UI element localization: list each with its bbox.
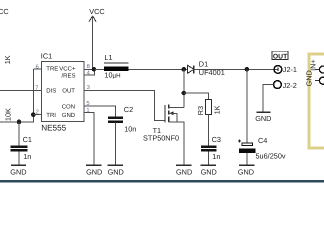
svg-text:1K: 1K — [3, 55, 12, 64]
junction: pin2 node — [31, 112, 36, 117]
svg-text:DIS: DIS — [46, 88, 56, 95]
svg-text:1n: 1n — [23, 152, 31, 161]
ground under T1 source — [176, 165, 192, 176]
junction: drain node on rail — [182, 67, 187, 72]
svg-text:7: 7 — [35, 85, 38, 91]
junction: C1 tap — [17, 120, 22, 125]
capacitor C4 (polarized) — [238, 136, 286, 165]
svg-text:NE555: NE555 — [41, 123, 66, 132]
separator line (bottom) — [0, 180, 324, 183]
wire: C1 to net — [18, 122, 20, 145]
resistor R3 1K — [196, 100, 222, 146]
op-amp/IC U1: NE555 timer IC1 box — [41, 52, 84, 133]
ground under IC pin 1 — [86, 165, 102, 176]
wire: pin 8 to VCC node — [84, 68, 95, 70]
wire: diode cathode to output — [194, 68, 278, 70]
net label OUT (framed) — [272, 51, 288, 60]
svg-text:6: 6 — [36, 63, 39, 70]
svg-text:CON: CON — [62, 104, 75, 111]
svg-text:GND: GND — [305, 70, 314, 86]
svg-text:/RES: /RES — [62, 73, 76, 80]
svg-text:C3: C3 — [212, 135, 221, 144]
svg-text:GND: GND — [10, 167, 26, 176]
svg-text:OUT: OUT — [273, 53, 288, 60]
svg-text:GND: GND — [238, 167, 254, 176]
diode D1 UF4001 — [188, 60, 225, 77]
svg-text:TRE: TRE — [46, 66, 58, 73]
svg-text:1: 1 — [86, 108, 89, 114]
wire: pin 3 to gate — [84, 90, 165, 120]
connector pin J2-2 — [263, 81, 297, 113]
junction: R3 tap — [182, 91, 187, 96]
junction: C4 tap on rail — [245, 67, 250, 72]
capacitor C2 — [108, 105, 136, 165]
svg-text:C1: C1 — [23, 135, 32, 144]
svg-text:GND: GND — [176, 167, 192, 176]
wire: drain vertical — [183, 69, 185, 107]
svg-text:TRI: TRI — [46, 112, 56, 119]
svg-text:R3: R3 — [196, 106, 205, 115]
connector pin J2-1 — [274, 65, 297, 74]
wire: DIS net from left edge to pin 7 — [0, 89, 41, 91]
ground under C1 — [10, 165, 26, 176]
svg-text:10n: 10n — [124, 124, 136, 133]
svg-text:VCC: VCC — [89, 7, 104, 16]
svg-text:IC1: IC1 — [41, 52, 52, 61]
wire: pin 4 up to VCC node — [84, 69, 95, 75]
svg-text:STP50NF0: STP50NF0 — [143, 134, 179, 143]
ground under C3 — [201, 165, 217, 176]
IC1 pin stubs — [33, 69, 94, 165]
capacitor C1 — [11, 135, 32, 165]
wire: rail to C4 — [246, 69, 248, 142]
svg-text:C4: C4 — [258, 136, 267, 145]
svg-text:5u6/250v: 5u6/250v — [256, 151, 286, 160]
module pin IN+ — [308, 59, 324, 73]
svg-text:10µH: 10µH — [104, 71, 120, 80]
ground under J2-2 — [255, 112, 271, 123]
IC1 pin numbers — [35, 63, 90, 116]
transistor T1 STP50NF0 MOSFET — [143, 104, 184, 165]
svg-text:VCC+: VCC+ — [59, 66, 76, 73]
svg-text:C2: C2 — [124, 105, 133, 114]
ground under C2 — [108, 165, 124, 176]
svg-text:1K: 1K — [212, 105, 221, 114]
svg-text:GND: GND — [108, 167, 124, 176]
ground under C4 — [238, 165, 255, 176]
svg-text:GND: GND — [86, 167, 102, 176]
wire: TRI/TRE net from left edge, up to pin 2 — [0, 69, 33, 122]
wire: L1 to diode — [128, 68, 187, 70]
svg-text:OUT: OUT — [62, 88, 75, 95]
svg-text:VCC: VCC — [0, 7, 9, 16]
capacitor C3 — [201, 135, 221, 165]
svg-text:GND: GND — [62, 112, 76, 119]
wire: pin 5 to C2 — [84, 106, 115, 117]
svg-text:GND: GND — [201, 167, 217, 176]
svg-text:J2-2: J2-2 — [283, 81, 297, 90]
svg-text:J2-1: J2-1 — [283, 65, 297, 74]
svg-text:GND: GND — [255, 114, 271, 123]
wire: tap to R3 — [184, 93, 209, 100]
wire: VCC node to L1 — [95, 68, 105, 70]
IC1 pin names — [46, 66, 76, 120]
svg-text:2: 2 — [36, 108, 39, 115]
module frame (yellow, cut off at right) — [308, 53, 324, 150]
inductor L1 — [104, 53, 128, 80]
junction: VCC node — [92, 67, 97, 72]
module pin GND — [305, 70, 324, 86]
svg-text:L1: L1 — [104, 53, 112, 62]
supply VCC (main, above IC) — [89, 7, 105, 70]
svg-text:10K: 10K — [4, 108, 13, 121]
svg-text:1n: 1n — [212, 152, 220, 161]
